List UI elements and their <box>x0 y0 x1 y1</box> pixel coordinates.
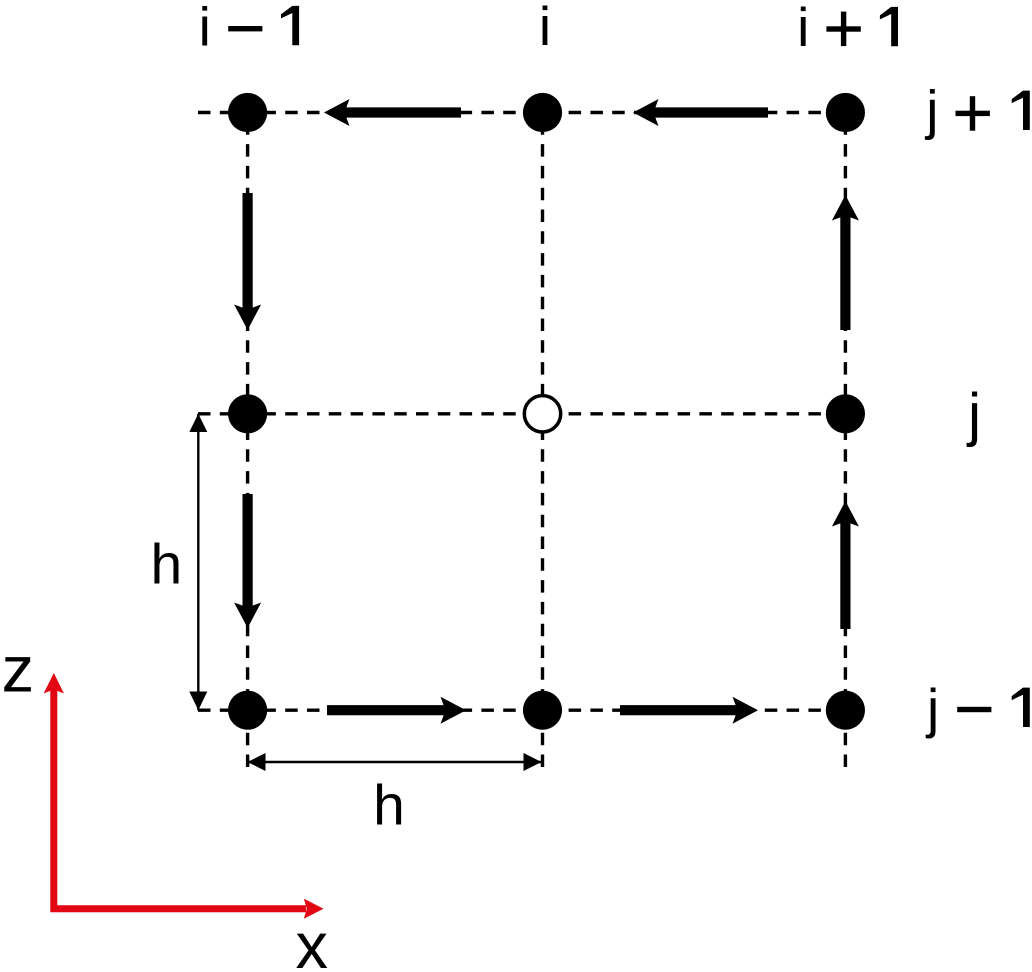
svg-text:z: z <box>2 633 35 706</box>
svg-text:i: i <box>539 0 551 57</box>
svg-text:j: j <box>925 677 939 739</box>
svg-text:x: x <box>295 909 328 972</box>
svg-text:h: h <box>150 533 182 597</box>
svg-text:j: j <box>966 382 981 448</box>
svg-text:j: j <box>924 79 938 141</box>
svg-text:i: i <box>199 0 211 57</box>
svg-text:h: h <box>373 774 405 838</box>
svg-text:i: i <box>797 0 809 58</box>
